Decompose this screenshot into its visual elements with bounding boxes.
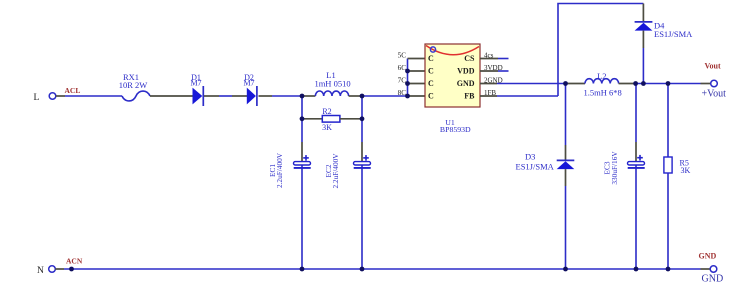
svg-text:ACN: ACN [66, 257, 83, 266]
svg-text:ACL: ACL [65, 86, 81, 95]
svg-text:C: C [428, 91, 434, 100]
svg-text:3K: 3K [322, 123, 332, 132]
svg-text:+Vout: +Vout [702, 88, 727, 99]
svg-text:C: C [428, 66, 434, 75]
svg-text:3VDD: 3VDD [484, 64, 503, 72]
svg-text:M7: M7 [190, 78, 201, 87]
svg-text:D3: D3 [525, 152, 535, 162]
svg-text:L2: L2 [597, 71, 606, 81]
svg-text:1mH 0510: 1mH 0510 [314, 79, 350, 89]
svg-text:3K: 3K [681, 166, 691, 175]
svg-text:C: C [428, 79, 434, 88]
svg-text:6C: 6C [398, 64, 407, 72]
svg-text:BP8593D: BP8593D [440, 125, 471, 134]
svg-text:M7: M7 [243, 78, 254, 87]
svg-text:GND: GND [699, 252, 717, 261]
svg-text:N: N [37, 266, 44, 276]
svg-text:GND: GND [457, 79, 475, 88]
svg-text:330uF/16V: 330uF/16V [610, 151, 619, 185]
svg-text:VDD: VDD [457, 66, 475, 75]
svg-text:L: L [34, 93, 40, 103]
svg-text:CS: CS [464, 54, 475, 63]
svg-text:1.5mH 6*8: 1.5mH 6*8 [584, 88, 622, 98]
svg-text:Vout: Vout [705, 62, 721, 71]
svg-text:4cs: 4cs [484, 51, 494, 59]
svg-text:FB: FB [464, 91, 475, 100]
svg-text:5C: 5C [398, 51, 407, 59]
svg-text:GND: GND [702, 274, 724, 285]
svg-text:1FB: 1FB [484, 89, 496, 97]
svg-text:8C: 8C [398, 89, 407, 97]
svg-text:ES1J/SMA: ES1J/SMA [516, 162, 555, 172]
svg-text:2GND: 2GND [484, 76, 503, 84]
svg-text:2.2uF/400V: 2.2uF/400V [331, 153, 340, 189]
svg-text:R2: R2 [322, 107, 331, 116]
svg-text:7C: 7C [398, 76, 407, 84]
svg-text:2.2uF/400V: 2.2uF/400V [275, 152, 284, 188]
svg-text:C: C [428, 54, 434, 63]
svg-text:10R 2W: 10R 2W [119, 80, 148, 90]
svg-text:ES1J/SMA: ES1J/SMA [654, 29, 693, 39]
